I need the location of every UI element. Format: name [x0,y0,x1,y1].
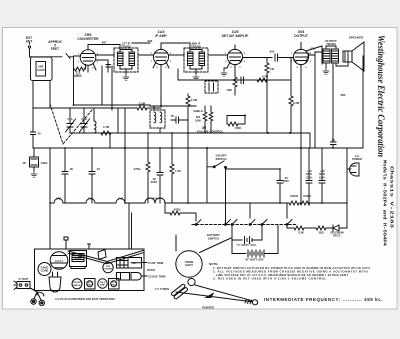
dial cord runs [176,235,252,304]
chassis dial cord vee [68,251,143,264]
wire filament bus y203 [50,202,347,204]
svg-text:POINTER: POINTER [202,305,214,309]
prong tip 2 [39,300,44,305]
svg-text:SWITCH: SWITCH [215,157,226,161]
svg-text:1800: 1800 [195,118,201,122]
wire gang common [70,132,110,134]
svg-text:ANT: ANT [26,40,33,44]
capacitor C4 [102,45,111,73]
capacitor C10 .05 400V [226,169,284,203]
svg-text:600: 600 [270,50,275,54]
IF transformer T1 1st IF [114,48,138,74]
svg-text:1U4 IF: 1U4 IF [99,281,106,284]
wire B+ down [346,56,364,148]
wire V3 plate out [243,57,272,59]
diode CR1 [30,148,39,171]
antenna loop L1 [31,57,53,132]
svg-text:1U4: 1U4 [88,197,94,201]
svg-text:TRANS: TRANS [191,45,201,49]
wire x301 down [300,148,302,203]
resistor R11 470K [146,133,150,203]
svg-text:Chassis V-2183: Chassis V-2183 [389,166,395,228]
ground T1 [123,74,129,80]
svg-text:DET./AF AMPLIF.: DET./AF AMPLIF. [222,34,249,38]
filament V3 [116,199,125,204]
svg-text:1R5: 1R5 [56,197,62,201]
svg-text:SWITCH: SWITCH [208,236,219,240]
resistor R17 1500ohm [300,201,310,205]
svg-text:1500Ω: 1500Ω [303,194,311,198]
svg-text:4.7M: 4.7M [103,125,110,129]
filament V2 [86,199,95,204]
capacitor C9 coupling [275,54,293,61]
svg-text:MEG: MEG [74,74,82,78]
svg-text:150K: 150K [235,126,242,130]
svg-text:TRANS: TRANS [110,284,118,287]
chassis IF can 2nd [85,279,96,290]
svg-text:600V: 600V [151,180,158,184]
battery BT1 A 4.5V [232,237,262,244]
svg-text:.05: .05 [170,114,174,118]
resistor R3 2.2M [130,106,161,110]
wire AVC bus y108 [33,107,130,109]
chassis terminal stub 1 [64,237,68,249]
switch contact f [286,203,292,228]
capacitor C14 electrolytic 40MFD [319,148,325,203]
chassis osc trimmer [117,273,142,281]
wire osc section [110,108,125,148]
svg-text:POWER: POWER [352,157,362,161]
wire V4 plate [301,43,323,149]
svg-text:OUTPUT: OUTPUT [294,34,309,38]
svg-text:1000Ω: 1000Ω [290,194,298,198]
resistor R14 3.3K [292,226,313,230]
wire antenna lead [30,48,74,59]
switch contact c [231,220,237,241]
svg-text:LOOP: LOOP [37,68,45,72]
ground T3 [323,68,329,74]
resistor R16 1000ohm [289,201,299,205]
resistor R12 1.5K [170,133,174,203]
svg-text:3. R51 USED IN SET USED WITH: 3. R51 USED IN SET USED WITH V-2183-1 VO… [213,277,328,281]
node EXT ANT terminal [28,43,30,49]
svg-text:AMP: AMP [100,284,105,287]
battery plug PL1 [14,281,30,290]
wire V2 plate [161,43,190,55]
resistor R13 470 [165,211,196,221]
svg-text:470Ω: 470Ω [174,208,182,212]
svg-text:2.2M: 2.2M [293,101,300,105]
wire bus y105 [74,66,151,110]
resistor R6 4.7M [255,78,275,82]
resistor R1 3.3MEG [74,67,86,71]
wire x188 down [187,133,189,203]
tube V2 1U4 IF amp [153,45,169,107]
resistor R8 2.2M grid [289,58,293,134]
chassis tube 1U5 socket [72,279,82,289]
svg-text:.01: .01 [96,167,100,171]
svg-text:SHIELD: SHIELD [193,109,203,113]
oscillator coil T4 [150,106,165,133]
svg-text:TRANS: TRANS [326,42,336,46]
switch contact d [249,203,255,225]
switch contact a [195,220,201,226]
switch S2 battery gang dashed [192,224,297,226]
chassis IF can 1st [109,279,120,290]
svg-text:400V: 400V [283,179,289,183]
filament V1 [54,199,63,204]
resistor R10 divider [209,110,213,128]
svg-text:82K: 82K [310,47,315,51]
variable capacitor C1A [66,108,76,133]
svg-text:AMPLIF: AMPLIF [73,284,81,287]
rectifier CR2 selenium [331,225,347,231]
transformer T3 output [323,46,343,68]
switch S1 on-off [207,148,227,225]
wire rectifier riser [346,148,348,228]
wire plate to IF1 [88,45,120,67]
svg-text:680: 680 [341,93,346,97]
svg-text:SPEAKER: SPEAKER [349,36,364,40]
svg-text:.05: .05 [22,161,26,165]
svg-text:4.7M: 4.7M [262,75,269,79]
junction dots buses [49,104,334,204]
svg-text:RATIO: RATIO [147,268,155,272]
capacitor C7 .01 [89,148,95,203]
svg-text:IF AMP: IF AMP [155,34,167,38]
wire V4 screen [306,46,322,64]
svg-text:RECT.: RECT. [333,234,341,238]
svg-text:150V: 150V [319,175,325,179]
svg-text:2.2M: 2.2M [139,102,146,106]
IF transformer T2 2nd IF [184,48,208,74]
svg-text:22Ω: 22Ω [318,231,324,235]
tube pin numbers [78,53,312,70]
inductor L2 osc coil [94,108,96,133]
dial end pulley [252,300,257,305]
svg-text:A-C PLUG IS PROVIDED FOR BATT: A-C PLUG IS PROVIDED FOR BATT OPERATION [55,297,115,301]
svg-text:C3 OSC TRIM: C3 OSC TRIM [148,274,166,278]
svg-text:600: 600 [196,115,201,119]
capacitor C15 .04 [241,77,244,84]
svg-text:470Ω: 470Ω [134,167,142,171]
chassis AC plug stored [49,272,61,292]
switch contact e [261,220,267,241]
resistor R2 47K [100,108,118,135]
svg-text:C3 RF TRIM: C3 RF TRIM [148,261,164,265]
speaker LS1 [343,42,364,71]
svg-text:CONVERT: CONVERT [103,269,114,271]
svg-text:Westinghouse Electric Corporat: Westinghouse Electric Corporation [375,35,385,157]
wire grid to gang [73,56,75,105]
svg-text:1U5: 1U5 [118,197,124,201]
resistor R5 10M [233,72,237,95]
svg-text:ANT: ANT [38,65,44,69]
wire chassis feed [129,203,132,249]
capacitor C6 .05 [62,148,68,203]
wire left filament drop [49,148,51,249]
chassis trimmer block C3 [117,258,142,269]
svg-text:3.V.3 4: 3.V.3 4 [55,259,64,263]
svg-text:.05: .05 [331,138,335,142]
ground diode [31,171,37,177]
chassis tube 1U4 socket [98,279,107,288]
svg-text:682: 682 [148,39,153,43]
svg-text:FEET: FEET [51,47,59,51]
resistor R7 1M [265,58,269,134]
chassis terminal stub 2 [88,244,91,249]
resistor R18 150K [227,116,245,127]
svg-text:487: 487 [102,41,107,45]
wire divider top [205,106,211,133]
plug P1 AC input [347,163,359,176]
chassis trimmer leader OSC [142,275,147,277]
svg-text:TRANS: TRANS [121,45,131,49]
svg-text:1.5M: 1.5M [191,98,198,102]
svg-text:CONVERTER: CONVERTER [77,37,99,41]
tube V4 3V4 output [293,44,309,148]
svg-text:100Ω: 100Ω [41,161,49,165]
battery BT2 B 90V [232,225,278,258]
svg-text:1.5K: 1.5K [175,169,181,173]
svg-text:COND: COND [41,269,49,273]
svg-text:OUTPUT: OUTPUT [73,256,83,258]
chassis speaker 3V4 circle [50,252,68,270]
chassis tube 1R5 socket [103,262,113,272]
switch contact b [225,220,231,226]
svg-text:"B" BATT. 90V: "B" BATT. 90V [245,258,264,262]
svg-text:3V4: 3V4 [153,197,158,201]
wire volume bus y133 [105,133,310,148]
capacitor C13 electrolytic 50MFD [306,148,312,203]
variable capacitor C1B [80,108,90,133]
svg-text:"A" BATT. 4.5V: "A" BATT. 4.5V [236,243,256,247]
dial tuning shaft circle [176,251,202,277]
wire IF2 to V3 [208,54,228,56]
svg-text:INTERMEDIATE FREQUENCY: .....: INTERMEDIATE FREQUENCY: ........... 455 … [264,297,383,302]
wire AVC bus y148 [33,147,346,149]
chassis diamond arrow [98,250,106,260]
wire IF1 to V2 [132,43,154,55]
capacitor C2 50pf [31,132,36,148]
svg-text:TRANS: TRANS [86,284,94,287]
wire AVC return y80 [178,69,291,80]
resistor R9 AVC divider [203,110,207,128]
capacitor C5 .05 [171,117,188,123]
chassis outline bottom view [35,249,145,291]
wire screen bus [150,98,196,106]
svg-text:TRANS: TRANS [74,257,82,260]
cord to prongs [30,288,44,300]
svg-text:C1B: C1B [81,117,86,121]
svg-text:3.3K: 3.3K [298,231,304,235]
svg-text:150V: 150V [306,175,312,179]
resistor R15 22ohm [313,226,331,230]
tuning gang dashed link [50,104,92,144]
wire x125 down [124,148,126,203]
ground T2 [193,74,199,80]
chassis trimmer leader RF [142,262,148,264]
tube V3 1U5 det/AF [227,45,243,72]
resistor R4 1.5M [186,94,190,133]
svg-text:Models H-502P4 and H-504P4: Models H-502P4 and H-504P4 [382,160,388,246]
svg-text:"A" BATT: "A" BATT [18,278,29,281]
svg-text:50: 50 [37,132,41,136]
tube V1 1R5 converter [74,45,97,73]
junction dots [124,105,302,149]
chassis output transformer [70,251,87,269]
svg-text:1M: 1M [270,67,275,71]
capacitor C8 .02 [157,148,163,203]
filter box AVC dashed [205,81,218,93]
svg-text:SHAFT: SHAFT [185,264,193,267]
capacitor C12 .05 plate [331,63,337,148]
svg-text:2 ½ TURNS: 2 ½ TURNS [155,287,169,291]
ground V3 cathode [221,68,227,76]
chassis gang condenser [38,263,51,276]
filament V4 [145,198,165,213]
dial pointer [206,294,213,298]
svg-text:.05: .05 [69,167,73,171]
svg-text:VOLUME CONTROL: VOLUME CONTROL [197,129,224,133]
svg-text:C1A: C1A [67,117,72,121]
svg-text:TUNING: TUNING [185,262,194,264]
dial idler circle [188,278,195,285]
dial knob shaft [171,284,188,300]
prong tip 1 [31,299,36,304]
svg-text:10M: 10M [226,88,232,92]
